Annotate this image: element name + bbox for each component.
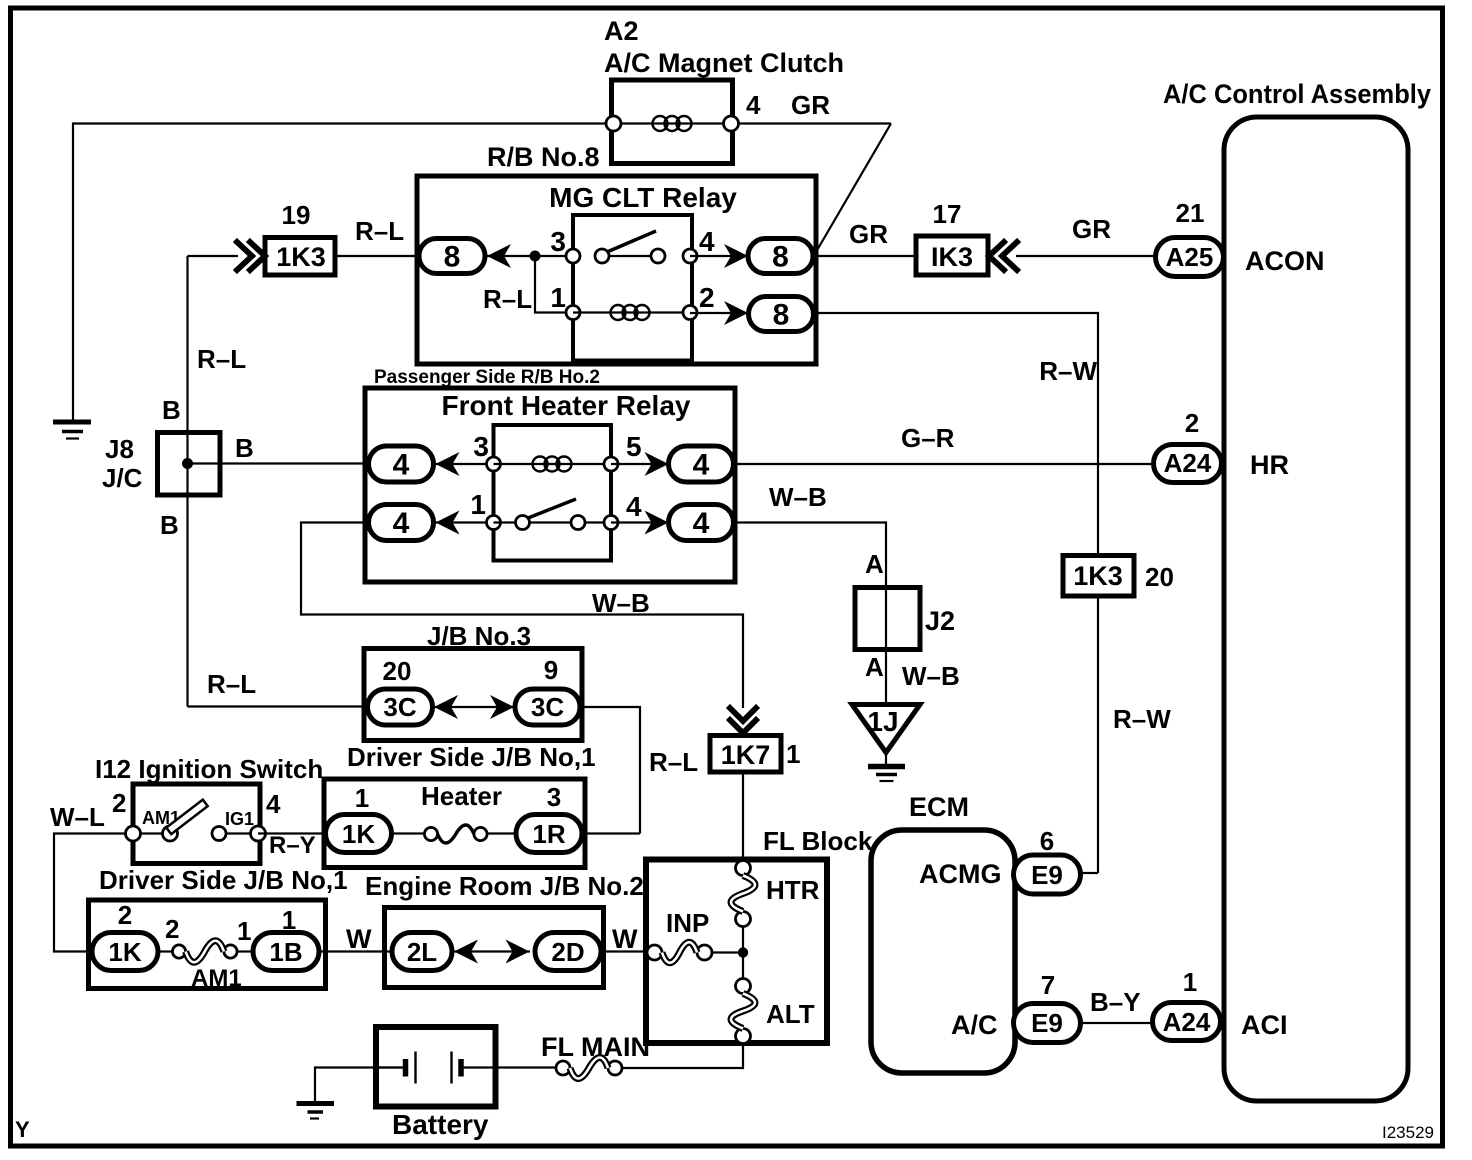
svg-text:A/C Magnet Clutch: A/C Magnet Clutch xyxy=(604,48,844,78)
svg-text:ACMG: ACMG xyxy=(919,859,1002,889)
svg-text:IG1: IG1 xyxy=(225,809,254,829)
wire down to FL block xyxy=(742,772,744,861)
svg-text:G–R: G–R xyxy=(901,423,955,453)
svg-text:ALT: ALT xyxy=(766,999,815,1029)
wire from vertical R-L line to 1K3 xyxy=(188,255,239,257)
connector oval 8 (pin 2 out) xyxy=(749,297,814,332)
connector oval 3C right xyxy=(515,689,580,725)
svg-text:1K: 1K xyxy=(342,819,375,849)
svg-text:1R: 1R xyxy=(532,819,565,849)
wire B-Y xyxy=(1081,1022,1155,1024)
svg-text:4: 4 xyxy=(393,507,410,540)
svg-text:1: 1 xyxy=(786,739,800,769)
svg-text:3: 3 xyxy=(547,782,561,812)
svg-text:A24: A24 xyxy=(1164,448,1212,478)
wire R-W from relay pin2 to E9 pin6 xyxy=(814,313,1099,556)
svg-text:A: A xyxy=(865,652,884,682)
svg-text:R–W: R–W xyxy=(1039,356,1097,386)
wire to coil pin 1 xyxy=(535,256,573,313)
svg-text:Heater: Heater xyxy=(421,781,502,811)
terminal circles xyxy=(606,116,621,131)
svg-text:19: 19 xyxy=(282,200,311,230)
svg-text:W–B: W–B xyxy=(592,588,650,618)
vertical wire R-L / B xyxy=(186,256,188,707)
connector oval 1B xyxy=(253,933,319,971)
svg-text:J2: J2 xyxy=(925,606,955,636)
pin 4 xyxy=(683,249,697,263)
svg-text:17: 17 xyxy=(933,199,962,229)
svg-text:W: W xyxy=(346,924,372,954)
svg-text:9: 9 xyxy=(544,655,558,685)
svg-text:R–L: R–L xyxy=(483,284,532,314)
svg-text:MG CLT Relay: MG CLT Relay xyxy=(549,182,737,213)
svg-text:W–B: W–B xyxy=(902,661,960,691)
fuse HTR xyxy=(736,861,751,876)
svg-text:2: 2 xyxy=(1185,408,1199,438)
svg-text:Front Heater Relay: Front Heater Relay xyxy=(442,390,691,421)
svg-text:4: 4 xyxy=(746,90,761,120)
svg-text:A: A xyxy=(865,549,884,579)
svg-text:A/C Control Assembly: A/C Control Assembly xyxy=(1163,79,1431,109)
diagonal wire to relay xyxy=(816,124,891,253)
junction dot R-L xyxy=(530,251,541,262)
svg-text:Engine Room J/B No.2: Engine Room J/B No.2 xyxy=(365,871,644,901)
svg-text:FL Block: FL Block xyxy=(763,826,873,856)
wire into 1K xyxy=(258,832,326,834)
svg-text:4: 4 xyxy=(266,789,281,819)
fuse AM1 xyxy=(158,950,173,952)
svg-text:B: B xyxy=(160,510,179,540)
wire B from J8 to relay xyxy=(188,462,370,464)
svg-text:R–L: R–L xyxy=(649,747,698,777)
svg-text:W: W xyxy=(612,924,638,954)
row 2: switch xyxy=(369,505,434,541)
wire from 3C to heater row xyxy=(580,707,640,834)
svg-text:1K: 1K xyxy=(108,937,141,967)
svg-text:GR: GR xyxy=(791,90,830,120)
svg-text:J/C: J/C xyxy=(102,463,143,493)
svg-text:INP: INP xyxy=(666,908,709,938)
svg-text:R/B No.8: R/B No.8 xyxy=(487,142,600,172)
svg-text:IK3: IK3 xyxy=(931,242,973,272)
front heater relay coil xyxy=(533,457,548,472)
connector oval 3C left xyxy=(368,689,433,725)
svg-text:2: 2 xyxy=(112,788,126,818)
row 1: coil xyxy=(369,446,434,482)
svg-text:R–L: R–L xyxy=(355,216,404,246)
svg-text:ACI: ACI xyxy=(1241,1010,1288,1040)
svg-text:4: 4 xyxy=(626,491,642,522)
svg-text:1: 1 xyxy=(355,783,369,813)
pin 2 xyxy=(683,306,697,320)
wire R-L into relay xyxy=(335,255,421,257)
relay coil xyxy=(611,305,626,320)
svg-text:2: 2 xyxy=(118,900,132,930)
svg-text:HR: HR xyxy=(1250,450,1289,480)
svg-text:1K7: 1K7 xyxy=(721,740,771,770)
svg-text:J8: J8 xyxy=(105,434,134,464)
svg-text:GR: GR xyxy=(849,219,888,249)
svg-text:4: 4 xyxy=(693,507,710,540)
svg-text:4: 4 xyxy=(393,449,410,482)
wire R-L into 3C xyxy=(188,705,369,707)
svg-text:Battery: Battery xyxy=(392,1109,489,1140)
wire W to engine room xyxy=(319,950,393,952)
svg-text:1: 1 xyxy=(550,282,566,313)
svg-text:1K3: 1K3 xyxy=(276,242,326,272)
svg-text:ECM: ECM xyxy=(909,792,969,822)
wire from ALT to FL MAIN xyxy=(622,1044,743,1069)
relay coil wire xyxy=(573,311,690,313)
svg-text:8: 8 xyxy=(772,241,789,274)
svg-text:3C: 3C xyxy=(383,692,416,722)
junction dot xyxy=(738,947,748,957)
wire W-L xyxy=(54,834,133,952)
svg-text:A/C: A/C xyxy=(951,1010,998,1040)
svg-text:20: 20 xyxy=(1145,562,1174,592)
arrow out pin 2 xyxy=(724,301,748,325)
relay block R/B No.8 xyxy=(417,176,816,364)
svg-text:Y: Y xyxy=(15,1117,30,1142)
svg-text:1J: 1J xyxy=(867,706,898,737)
ground G1 xyxy=(53,420,91,425)
svg-text:2: 2 xyxy=(165,914,179,944)
svg-text:3: 3 xyxy=(473,431,489,462)
wire GR relay to IK3 xyxy=(816,255,916,257)
svg-text:R–L: R–L xyxy=(197,344,246,374)
battery ground wire xyxy=(315,1068,405,1103)
junction block J8 J/C xyxy=(158,433,221,496)
ground 1J triangle xyxy=(852,705,920,753)
svg-text:1: 1 xyxy=(1183,967,1197,997)
svg-text:20: 20 xyxy=(383,656,412,686)
svg-text:1: 1 xyxy=(282,905,296,935)
connector oval 8 (left, pin 3 side) xyxy=(419,239,485,274)
svg-text:Driver Side J/B No,1: Driver Side J/B No,1 xyxy=(347,742,596,772)
heater fuse xyxy=(392,832,426,834)
svg-text:2D: 2D xyxy=(551,937,584,967)
connector oval 1K xyxy=(326,815,392,853)
svg-text:R–L: R–L xyxy=(207,669,256,699)
svg-text:8: 8 xyxy=(773,299,790,332)
svg-text:5: 5 xyxy=(626,431,642,462)
wire W-B from relay pin4 down to J2 xyxy=(734,523,887,704)
svg-text:3C: 3C xyxy=(531,692,564,722)
wire through clutch xyxy=(613,122,731,124)
svg-text:W–L: W–L xyxy=(50,802,105,832)
relay switch contacts xyxy=(595,249,609,263)
connector oval 1R xyxy=(516,815,582,853)
svg-text:1K3: 1K3 xyxy=(1073,561,1123,591)
svg-text:A25: A25 xyxy=(1166,242,1214,272)
svg-text:8: 8 xyxy=(444,241,461,274)
svg-text:E9: E9 xyxy=(1031,860,1063,890)
coil of magnet clutch xyxy=(653,116,668,131)
svg-text:AM1: AM1 xyxy=(191,965,242,992)
wire B from magnet clutch to ground xyxy=(73,124,613,421)
SECTION: Battery xyxy=(376,1027,496,1107)
svg-text:2L: 2L xyxy=(407,937,437,967)
wire W to FL block xyxy=(601,950,655,952)
connector oval 2D xyxy=(535,933,601,971)
ignition lever xyxy=(166,800,207,835)
svg-text:3: 3 xyxy=(550,226,566,257)
svg-text:E9: E9 xyxy=(1031,1008,1063,1038)
svg-text:B: B xyxy=(162,395,181,425)
relay inner box U1 xyxy=(573,215,692,361)
connector oval 2L xyxy=(392,933,452,971)
svg-text:R–Y: R–Y xyxy=(269,832,316,859)
svg-text:ACON: ACON xyxy=(1245,246,1325,276)
connector oval 1K lower xyxy=(92,933,158,971)
svg-text:I12 Ignition Switch: I12 Ignition Switch xyxy=(95,754,323,784)
svg-text:1: 1 xyxy=(470,489,486,520)
svg-text:A2: A2 xyxy=(604,16,639,46)
switch contacts xyxy=(133,832,170,834)
wire G-R to A24 xyxy=(734,463,1155,465)
wire GR to A25 xyxy=(1016,255,1158,257)
svg-text:B–Y: B–Y xyxy=(1090,987,1141,1017)
switch lever xyxy=(607,231,656,252)
arrow out pin 4 xyxy=(724,244,748,268)
svg-text:B: B xyxy=(235,433,254,463)
wire W-B from relay pin1 around to 1K7 xyxy=(301,523,743,709)
svg-text:1B: 1B xyxy=(269,937,302,967)
svg-text:2: 2 xyxy=(699,282,715,313)
arrow into oval 8 xyxy=(487,244,511,268)
svg-text:21: 21 xyxy=(1176,198,1205,228)
inner relay box xyxy=(494,425,612,561)
svg-text:7: 7 xyxy=(1041,970,1055,1000)
svg-text:6: 6 xyxy=(1040,826,1054,856)
svg-text:W–B: W–B xyxy=(769,482,827,512)
svg-text:GR: GR xyxy=(1072,214,1111,244)
connector oval 8 (right, pin 4 out) xyxy=(748,239,813,274)
svg-text:4: 4 xyxy=(693,449,710,482)
svg-text:A24: A24 xyxy=(1163,1007,1211,1037)
svg-text:HTR: HTR xyxy=(766,875,820,905)
svg-text:I23529: I23529 xyxy=(1382,1123,1434,1142)
fuse ALT xyxy=(736,979,751,994)
battery cells xyxy=(376,1066,406,1068)
svg-text:R–W: R–W xyxy=(1113,704,1171,734)
svg-text:1: 1 xyxy=(237,916,251,946)
svg-text:Driver Side J/B No,1: Driver Side J/B No,1 xyxy=(99,865,348,895)
wire pin4 to oval xyxy=(690,255,750,257)
svg-text:Passenger Side R/B Ho.2: Passenger Side R/B Ho.2 xyxy=(374,367,600,388)
connector 1K3 pin 20 xyxy=(1063,556,1134,597)
svg-text:4: 4 xyxy=(699,226,715,257)
